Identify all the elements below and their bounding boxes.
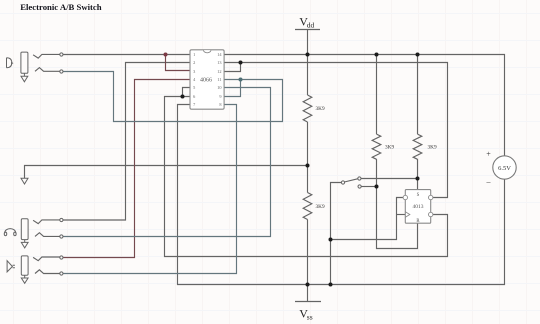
- svg-text:3: 3: [193, 69, 195, 74]
- svg-text:11: 11: [217, 77, 221, 82]
- svg-text:2: 2: [193, 60, 195, 65]
- svg-text:4066: 4066: [200, 78, 212, 84]
- svg-text:–: –: [486, 177, 492, 186]
- svg-text:3K9: 3K9: [385, 145, 394, 151]
- svg-text:5: 5: [193, 85, 195, 90]
- svg-text:10: 10: [217, 85, 221, 90]
- svg-text:Electronic A/B Switch: Electronic A/B Switch: [20, 2, 102, 12]
- svg-text:8: 8: [219, 102, 221, 107]
- svg-text:4013: 4013: [413, 204, 424, 210]
- svg-text:9: 9: [219, 94, 221, 99]
- svg-text:3K9: 3K9: [428, 145, 437, 151]
- svg-text:dd: dd: [307, 20, 315, 29]
- svg-text:13: 13: [217, 60, 221, 65]
- svg-text:3K9: 3K9: [316, 204, 325, 210]
- svg-text:ss: ss: [307, 313, 313, 322]
- svg-text:3K9: 3K9: [316, 106, 325, 112]
- svg-text:6.5V: 6.5V: [498, 165, 511, 172]
- svg-text:+: +: [486, 150, 491, 159]
- svg-text:1: 1: [193, 52, 195, 57]
- svg-text:12: 12: [217, 69, 221, 74]
- svg-text:S: S: [417, 193, 420, 198]
